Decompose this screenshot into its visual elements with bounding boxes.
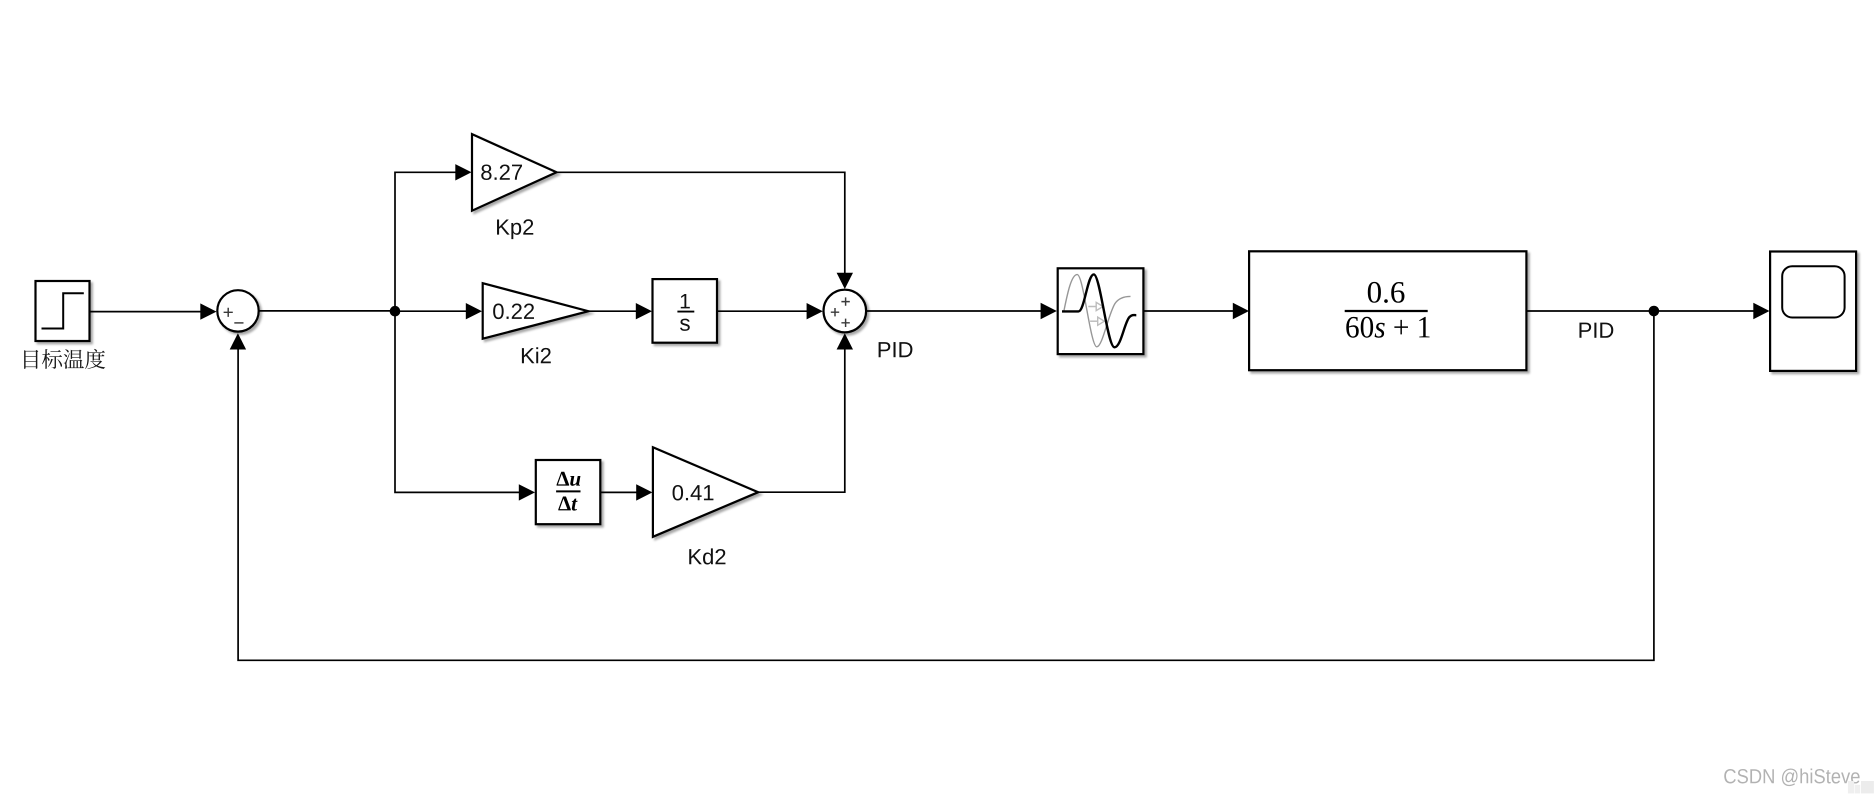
gain Kd2 triangle — [653, 447, 758, 537]
integrator numerator 1 — [681, 294, 690, 308]
arrowhead into transport delay — [1041, 303, 1057, 319]
label PID at sum output — [879, 342, 913, 357]
step waveform icon — [42, 293, 84, 328]
wire: branch node up and to gain Kp2 — [395, 172, 457, 311]
feedback wire: output node down, across, up into S1 — [238, 311, 1654, 660]
branch node dot — [390, 306, 401, 317]
integrator denominator s — [680, 319, 690, 331]
S1 minus sign — [234, 322, 243, 324]
delay icon gray arrow lower — [1090, 320, 1097, 322]
scope block — [1770, 252, 1856, 371]
S2 plus left — [831, 308, 839, 316]
scope screen — [1782, 266, 1844, 317]
wire: Kp2 output across and down to sum S2 top — [557, 172, 845, 273]
Kd2 value 0.41 — [673, 485, 714, 501]
integrator block 1/s — [653, 279, 718, 343]
arrowhead into sum S2 top input — [837, 273, 853, 289]
step source block (Step) — [36, 281, 90, 341]
derivative fraction bar — [556, 490, 580, 492]
arrowhead into sum S1 left input — [200, 303, 216, 319]
wire: Ki2 to integrator — [588, 310, 637, 312]
S2 plus bottom — [841, 319, 849, 327]
transfer fn denominator 60s+1 — [1346, 317, 1429, 338]
arrowhead into integrator — [636, 303, 652, 319]
wire: delay to transfer function — [1143, 310, 1233, 312]
Kp2 value 8.27 — [481, 164, 522, 180]
wire: derivative to gain Kd2 — [600, 491, 637, 493]
integrator fraction bar — [677, 311, 694, 313]
arrowhead into Ki2 — [466, 303, 482, 319]
arrowhead into Kp2 — [455, 164, 471, 180]
label Kd2 — [689, 548, 725, 564]
gain Kp2 triangle — [472, 134, 557, 211]
wire: S1 to branch node — [259, 310, 395, 312]
wire: S2 to transport delay — [866, 310, 1041, 312]
delay icon gray arrow upper — [1088, 306, 1096, 308]
arrowhead into Kd2 — [636, 484, 652, 500]
transfer fn numerator 0.6 — [1368, 282, 1405, 303]
watermark CSDN @hiSteve — [1724, 768, 1859, 786]
arrowhead into sum S2 left input — [807, 303, 823, 319]
arrowhead into transfer function — [1233, 303, 1249, 319]
arrowhead into derivative block — [519, 484, 535, 500]
derivative denominator — [558, 497, 577, 511]
derivative block Delta u / Delta t — [536, 460, 601, 524]
label Kp2 — [497, 219, 533, 239]
arrowhead into scope — [1753, 303, 1769, 319]
arrowhead into S1 bottom input — [230, 333, 246, 349]
Ki2 value 0.22 — [493, 304, 534, 320]
block label 目标温度 (target temperature) — [24, 349, 105, 369]
delay icon gray sine — [1064, 275, 1131, 347]
S2 plus top — [841, 297, 849, 305]
label Ki2 — [522, 347, 551, 363]
sum junction S2 (+++) — [824, 290, 867, 333]
wire: branch node down to derivative block — [395, 311, 520, 492]
derivative numerator — [557, 472, 581, 486]
wire: integrator to sum PID — [717, 310, 807, 312]
watermark logo squares — [1848, 781, 1854, 793]
sum junction S1 (+/-) — [217, 290, 258, 331]
label PID on feedback takeoff — [1579, 323, 1613, 338]
gain Ki2 triangle — [483, 283, 589, 339]
transfer fn fraction bar — [1345, 310, 1428, 312]
wire: step source to sum S1 — [90, 311, 202, 313]
branch node dot on output — [1649, 306, 1660, 317]
wire: branch node to gain Ki2 — [395, 310, 467, 312]
wire: transfer fn to scope with branch — [1526, 310, 1754, 312]
wire: Kd2 output across and up to sum S2 bottom — [758, 349, 845, 492]
transfer function block 0.6/(60s+1) — [1249, 251, 1526, 370]
S1 plus sign — [224, 308, 233, 317]
transport delay block — [1058, 268, 1144, 354]
arrowhead into sum S2 bottom input — [837, 333, 853, 349]
delay icon black delayed sine — [1062, 274, 1136, 347]
